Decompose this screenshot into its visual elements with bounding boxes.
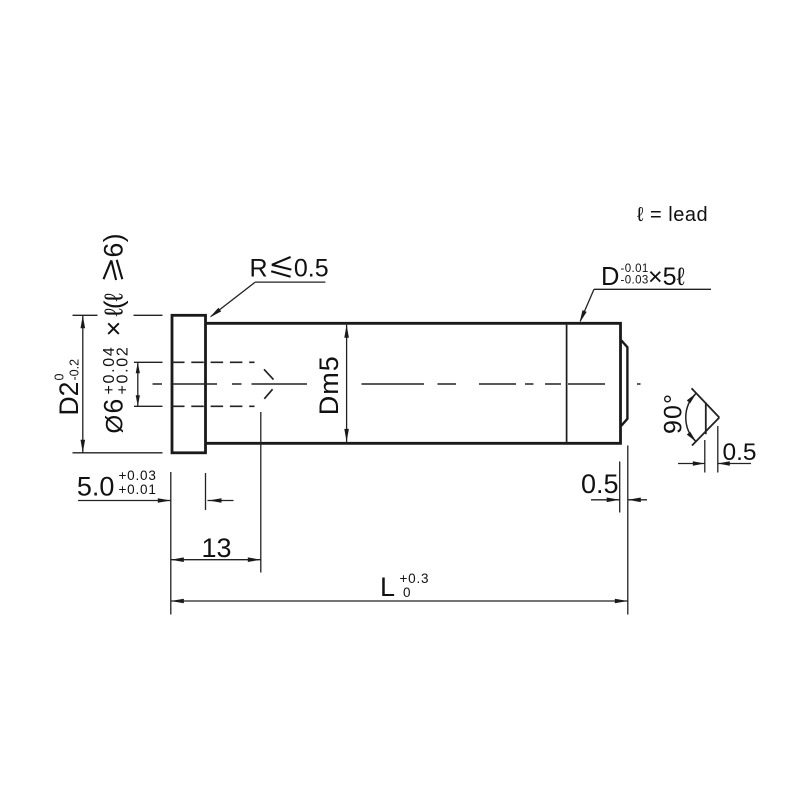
svg-text:0.5: 0.5: [581, 469, 619, 499]
svg-text:0.5: 0.5: [294, 255, 329, 283]
svg-text:5.0: 5.0: [77, 472, 115, 502]
svg-text:13: 13: [201, 533, 231, 563]
svg-text:D: D: [601, 263, 619, 291]
svg-text:6: 6: [99, 399, 129, 414]
svg-text:0: 0: [403, 585, 411, 600]
svg-text:-0.03: -0.03: [621, 275, 649, 287]
svg-text:90°: 90°: [659, 393, 687, 434]
svg-text:+0.01: +0.01: [119, 482, 157, 497]
svg-text:-0.01: -0.01: [621, 263, 649, 275]
svg-text:R: R: [250, 255, 268, 283]
svg-text:ℓ = lead: ℓ = lead: [637, 204, 708, 226]
svg-text:D2: D2: [54, 382, 84, 416]
svg-text:Ø: Ø: [102, 415, 129, 434]
svg-text:-0.2: -0.2: [68, 359, 82, 381]
svg-text:Dm5: Dm5: [314, 355, 344, 415]
svg-text:×: ×: [99, 321, 129, 337]
svg-text:0: 0: [53, 374, 67, 381]
svg-text:0.5: 0.5: [723, 439, 757, 466]
svg-text:ℓ(ℓ: ℓ(ℓ: [99, 292, 129, 316]
svg-text:×5ℓ: ×5ℓ: [648, 263, 686, 291]
svg-text:+0.02: +0.02: [115, 346, 132, 395]
svg-text:+0.3: +0.3: [400, 571, 430, 586]
svg-text:6): 6): [99, 233, 129, 258]
svg-text:L: L: [380, 572, 395, 602]
svg-text:+0.03: +0.03: [119, 468, 157, 483]
